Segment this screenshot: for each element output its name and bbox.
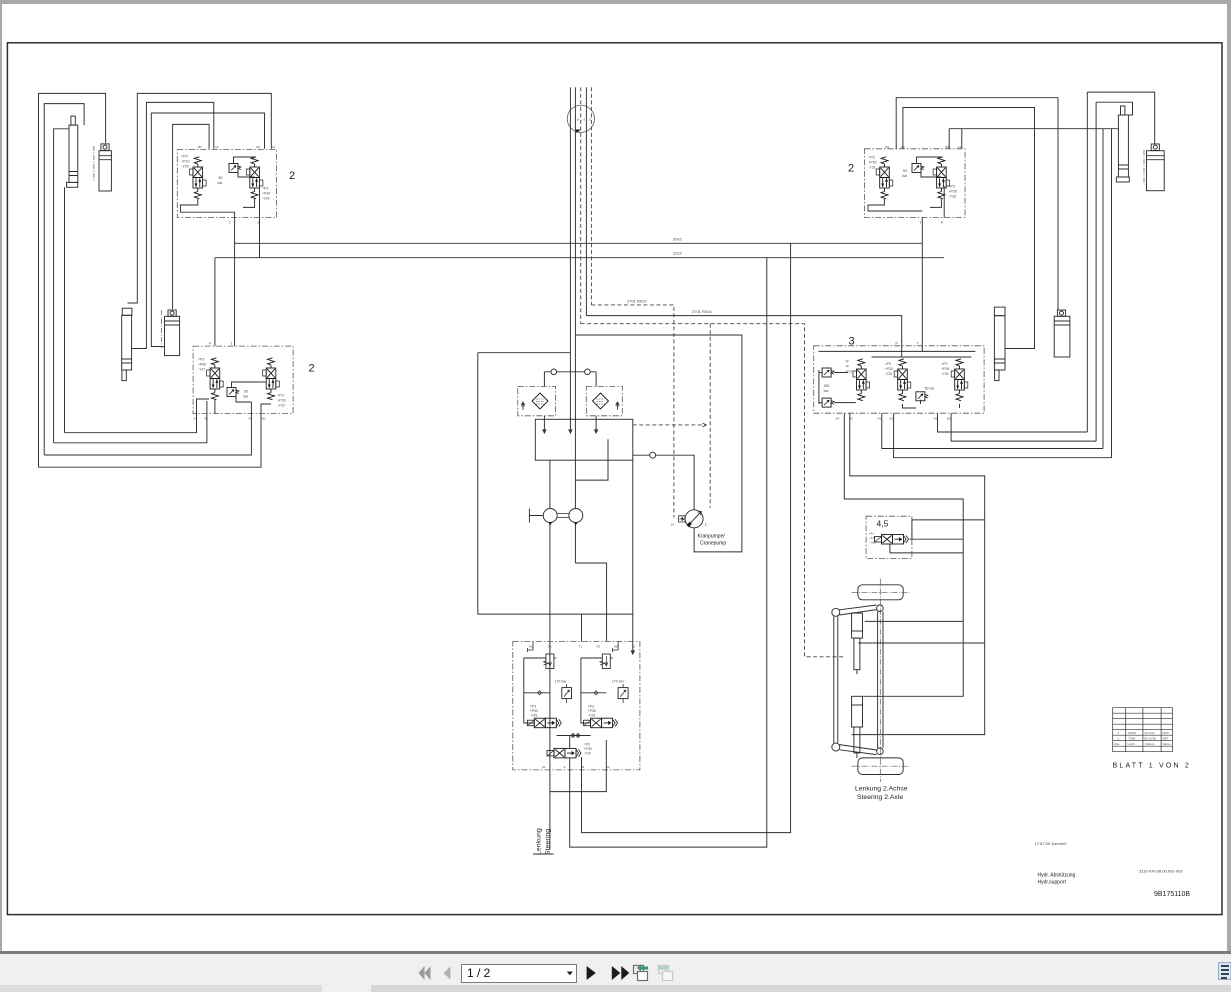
filter left [532, 393, 548, 409]
wire bottom run B2 [39, 414, 262, 468]
svg-text:8: 8 [577, 117, 579, 121]
wire blockTR-B1 A1 stubs [949, 129, 962, 149]
wire long to cylinder C7 rod [949, 128, 1118, 130]
valve Y31 [876, 157, 893, 199]
svg-text:P: P [258, 221, 261, 225]
relief valve right [618, 684, 628, 703]
svg-text:B2: B2 [947, 417, 951, 421]
steering valve block boundary [513, 642, 640, 770]
svg-text:Zus.: Zus. [1114, 742, 1120, 746]
next page button (right arrow) [587, 966, 596, 980]
svg-text:+P30: +P30 [949, 190, 957, 194]
kingpin lower [877, 748, 884, 755]
cylinder C2 (front left support) [94, 144, 112, 191]
page number combo box [461, 964, 577, 983]
bundle bottom runs to block3 ports [938, 413, 1088, 432]
svg-text:=P3: =P3 [198, 358, 204, 362]
tie rod [834, 617, 838, 743]
svg-text:170 bar: 170 bar [555, 680, 568, 684]
svg-text:25.10.98: 25.10.98 [1144, 737, 1156, 741]
svg-text:=P3: =P3 [277, 394, 283, 398]
svg-text:4,5: 4,5 [877, 519, 889, 529]
svg-text:B1: B1 [205, 417, 209, 421]
svg-text:+P30: +P30 [530, 709, 538, 713]
gauge handle [529, 509, 543, 523]
hose bundle marker circle [567, 105, 594, 132]
block1 internal wire to check [234, 157, 255, 177]
svg-text:bar: bar [218, 181, 224, 185]
valve Y30 [190, 157, 207, 199]
svg-text:+P10: +P10 [181, 160, 189, 164]
svg-text:+P30: +P30 [885, 367, 893, 371]
wire block1-T to block2-T [234, 218, 236, 347]
svg-text:T4402: T4402 [1128, 731, 1137, 735]
oil tank [535, 419, 633, 460]
svg-text:6: 6 [584, 117, 586, 121]
svg-text:Lenkung: Lenkung [536, 828, 543, 855]
svg-text:1: 1 [1118, 737, 1120, 741]
svg-text:=P3: =P3 [949, 185, 955, 189]
pressure reducer P1 [544, 654, 557, 669]
junction diamonds [538, 691, 599, 695]
svg-text:B: B [582, 765, 584, 769]
relief valve left [562, 684, 572, 703]
crane pump [685, 510, 703, 528]
svg-text:P: P [209, 342, 212, 346]
valve block 3 boundary [814, 346, 984, 413]
svg-text:A2: A2 [934, 417, 938, 421]
coupling W left [551, 369, 557, 375]
revision table [1113, 708, 1173, 752]
svg-text:B1: B1 [257, 145, 261, 149]
svg-text:-Y33: -Y33 [941, 372, 948, 376]
svg-text:B2: B2 [886, 145, 890, 149]
wire outer left loop to cylinder C2 [39, 93, 106, 467]
svg-text:A1: A1 [878, 417, 882, 421]
wire bottom run B1 [54, 414, 207, 443]
relief 50bar block3 [916, 392, 928, 401]
svg-text:2: 2 [289, 170, 295, 182]
block1 internal wire T [180, 199, 234, 218]
svg-text:-Y20: -Y20 [584, 752, 591, 756]
block45 wires [890, 520, 985, 553]
valve Y22 [853, 359, 870, 401]
axle beam [878, 612, 883, 748]
wedge mark [576, 130, 581, 134]
filter bypass right [616, 402, 620, 410]
pilot check 50bar blockTR [912, 164, 924, 173]
previous view icon [634, 964, 649, 981]
filter to tank stubs [543, 416, 598, 433]
steering lines down and right B [570, 258, 767, 847]
svg-text:-Y26: -Y26 [885, 372, 892, 376]
bus line upper 20x2 [235, 242, 923, 244]
svg-text:T300: T300 [1129, 737, 1136, 741]
wire bottom run A1 [65, 414, 197, 433]
bus line lower 22x2 [215, 257, 944, 259]
wire B3 to axle rod side [850, 413, 985, 734]
wire into tank top [478, 353, 572, 433]
valve block TR boundary [864, 149, 965, 218]
tank internal suction [607, 439, 609, 460]
svg-text:-Y29: -Y29 [262, 197, 269, 201]
wire right bundle 1 to cylinder C8 cap [1087, 92, 1154, 144]
svg-text:=P3: =P3 [584, 743, 590, 747]
svg-text:-Y27: -Y27 [198, 368, 205, 372]
filter box left [518, 386, 556, 415]
svg-text:9B175110B: 9B175110B [1154, 891, 1190, 898]
svg-text:=P3: =P3 [588, 705, 594, 709]
svg-text:Steering 2.Axle: Steering 2.Axle [857, 794, 903, 801]
svg-text:B2: B2 [198, 145, 202, 149]
svg-text:50: 50 [903, 169, 907, 173]
svg-text:2: 2 [848, 163, 854, 175]
supply line 2 [574, 87, 576, 563]
wire blockTR-B2 to cylinder C6 cap [896, 98, 1058, 310]
svg-text:-Y25: -Y25 [530, 714, 537, 718]
svg-text:=F+: =F+ [869, 532, 875, 536]
axle centerline [879, 579, 881, 782]
valve Y20 block45 [875, 535, 909, 545]
coupling W right [585, 369, 591, 375]
svg-text:=P3: =P3 [885, 362, 891, 366]
svg-text:A1: A1 [272, 145, 276, 149]
bottom-right panel icon [1219, 963, 1231, 980]
wheel lower centerline [852, 765, 910, 767]
svg-text:12.3.01: 12.3.01 [1145, 731, 1155, 735]
svg-text:A: A [564, 765, 566, 769]
svg-text:B1: B1 [890, 417, 894, 421]
suction route to P2 [575, 460, 608, 641]
hand pump gauge 1 [543, 509, 557, 523]
relief 180bar upper [822, 368, 834, 377]
svg-text:Lenkung 2.Achse: Lenkung 2.Achse [855, 786, 908, 793]
svg-text:+F: +F [845, 365, 849, 369]
steering arm lower [840, 745, 877, 755]
svg-text:Steering: Steering [545, 829, 552, 855]
cylinder C7 (right front outrigger) [1116, 106, 1129, 182]
pressure reducer P2 [600, 654, 613, 669]
valve Y33 [951, 359, 968, 401]
T2 line from tank unit [631, 614, 634, 654]
wire axle cylinder upper piston [865, 620, 963, 622]
svg-text:+P90: +P90 [198, 363, 206, 367]
block3 T feed from blockTR [921, 218, 923, 346]
svg-text:-Y22: -Y22 [845, 370, 852, 374]
wire from cylinder C1 foot down [64, 187, 66, 432]
svg-text:Cranepump: Cranepump [700, 541, 726, 547]
wire axle cylinder upper rod [858, 642, 985, 644]
supply line 1 to tank [569, 87, 571, 352]
return line to pump [633, 455, 694, 510]
svg-text:50: 50 [219, 176, 223, 180]
steering internal rail left [524, 658, 550, 723]
svg-text:-Y28: -Y28 [949, 195, 956, 199]
axle lock cylinder upper [852, 613, 863, 674]
svg-text:+P30: +P30 [584, 747, 592, 751]
filter right [593, 393, 609, 409]
T1 line from tank unit [581, 614, 583, 641]
svg-text:50: 50 [244, 390, 248, 394]
wire block1-B1 to cylinder C4 rod side [151, 113, 264, 347]
svg-text:+P30: +P30 [588, 709, 596, 713]
svg-text:P1: P1 [548, 644, 552, 648]
svg-text:17.07.00 1wrmm2: 17.07.00 1wrmm2 [1035, 841, 1068, 846]
cylinder C3 (mid left outrigger) [122, 308, 132, 380]
pilot dashed 2701 R016 [581, 324, 845, 657]
svg-text:2: 2 [589, 117, 591, 121]
svg-text:+P30: +P30 [868, 161, 876, 165]
wire rect R1 block1-A1 to cylinder C3 cap [128, 93, 272, 303]
svg-text:+P30: +P30 [277, 399, 285, 403]
svg-text:180: 180 [824, 384, 830, 388]
svg-text:L: L [705, 522, 708, 527]
svg-text:20x2: 20x2 [673, 236, 682, 241]
last page button (double right arrows) [612, 966, 621, 980]
svg-text:Datum: Datum [1146, 742, 1155, 746]
block2 internal wires [197, 382, 272, 414]
svg-text:=P3: =P3 [262, 187, 268, 191]
wire loop C to cylinder C1 rod side [54, 129, 69, 443]
svg-text:T: T [917, 342, 920, 346]
svg-text:Hydr. Abstützung: Hydr. Abstützung [1038, 873, 1076, 879]
hand pump gauge 2 [569, 509, 583, 523]
svg-text:T1: T1 [579, 644, 583, 648]
svg-text:-Y32: -Y32 [277, 404, 284, 408]
pilot line dashed A [580, 87, 582, 323]
svg-text:A2: A2 [249, 417, 253, 421]
svg-text:bar: bar [902, 174, 908, 178]
cylinder C4 (mid left support) [162, 310, 180, 356]
wire right bundle 2 to cylinder C7 cap [1096, 102, 1132, 115]
wire block1-A2 to cylinder C3 rod [132, 102, 214, 348]
cylinder C5 (right mid outrigger) [994, 307, 1005, 381]
first page button (double left arrows) [419, 966, 431, 980]
combo dropdown caret [567, 972, 573, 976]
wire block1-P to bus [259, 218, 261, 258]
axle wheel upper [858, 585, 903, 600]
svg-text:DET: DET [1163, 737, 1169, 741]
svg-text:=F: =F [845, 360, 849, 364]
right bundle verticals [1086, 92, 1088, 432]
axle lock cylinder lower [852, 696, 863, 758]
svg-text:T: T [229, 221, 232, 225]
pilot dashed from tank [633, 423, 707, 426]
svg-text:-Y24: -Y24 [588, 714, 595, 718]
svg-text:=P3: =P3 [530, 705, 536, 709]
svg-text:B2: B2 [262, 417, 266, 421]
svg-text:HNX: HNX [1163, 731, 1169, 735]
drain plug [650, 452, 656, 458]
wire P to steering block3 [586, 316, 901, 346]
svg-text:A1: A1 [542, 765, 546, 769]
steering internal rail right [581, 658, 606, 723]
180bar connections [819, 370, 856, 404]
block1 internal wire P [243, 186, 260, 218]
tank unit boundary [478, 353, 633, 614]
svg-text:-Y30: -Y30 [181, 165, 188, 169]
svg-text:=P3: =P3 [868, 156, 874, 160]
kingpin upper [877, 605, 884, 612]
filter box right [586, 386, 622, 415]
steering line P2 jog [550, 740, 606, 792]
steering solenoid valve Y20 [547, 748, 581, 758]
suction route to P1 [549, 460, 551, 849]
svg-text:+F4: +F4 [869, 536, 875, 540]
svg-text:=P3: =P3 [941, 362, 947, 366]
svg-text:3110-970.08.00.001-003: 3110-970.08.00.001-003 [1139, 869, 1183, 874]
pilot dashed 2701 R010 [591, 305, 674, 518]
coupling line [544, 372, 596, 387]
pilot dashed branch to pump [709, 324, 711, 508]
M1 stub [528, 642, 534, 653]
cylinder C8 (right front support) [1144, 144, 1164, 191]
svg-text:3: 3 [849, 336, 855, 348]
svg-text:Name: Name [1163, 742, 1171, 746]
prev page button (left arrow) [444, 967, 451, 980]
steering line A2 right [582, 243, 791, 832]
valve Y32 [263, 358, 280, 400]
svg-text:A2: A2 [215, 145, 219, 149]
svg-text:2701 R016: 2701 R016 [692, 309, 712, 314]
wheel upper centerlines [852, 591, 910, 593]
block3 internal rails [818, 346, 975, 357]
relief 180bar lower [822, 398, 834, 407]
svg-text:-Y31: -Y31 [868, 166, 875, 170]
svg-text:=P3: =P3 [181, 155, 187, 159]
pilot check valve 50bar block2 [227, 388, 239, 397]
steering arm upper [840, 605, 877, 615]
svg-text:1A: 1A [671, 523, 675, 527]
cylinder C1 (front left outrigger) [67, 116, 78, 187]
svg-text:BLATT 1 VON 2: BLATT 1 VON 2 [1113, 763, 1192, 770]
next view icon (disabled) [658, 964, 673, 981]
svg-text:50 bar: 50 bar [925, 386, 936, 390]
wire T to crane pump box [575, 335, 742, 552]
tie rod pivot upper [832, 608, 840, 616]
pilot check valve 50bar block1 [229, 164, 241, 173]
wire block1-B2 to cylinder C4 cap [173, 124, 210, 309]
valve block 2 boundary (dash-dot) [193, 346, 293, 413]
steering solenoid valve Y25 [527, 718, 561, 728]
steering solenoid valve Y24 [584, 718, 618, 728]
blockTR internal wires [868, 157, 944, 218]
svg-text:T: T [231, 342, 234, 346]
wire loop B to cylinder C1 cap [44, 104, 84, 455]
svg-text:Ind.N: Ind.N [1128, 742, 1135, 746]
tie rod pivot lower [832, 743, 840, 751]
svg-text:bar: bar [243, 395, 249, 399]
svg-text:Kranpumpe/: Kranpumpe/ [698, 534, 726, 540]
wire bus to block2-P [214, 258, 216, 346]
steering mid connections [557, 734, 591, 749]
valve Y27 [207, 358, 224, 400]
svg-text:7: 7 [570, 117, 572, 121]
svg-text:2: 2 [1118, 731, 1120, 735]
svg-text:P: P [941, 221, 944, 225]
wire A3 to lower axle cylinder [844, 413, 963, 696]
block3 internal jogs [903, 400, 960, 408]
svg-text:A1: A1 [194, 417, 198, 421]
filter bypass left [521, 402, 525, 410]
Lenkung continuation line [533, 853, 554, 855]
svg-text:bar: bar [824, 389, 830, 393]
M2 stub [613, 642, 619, 653]
pump drain connector [679, 516, 686, 522]
svg-text:T2: T2 [632, 644, 636, 648]
valve Y26 [894, 359, 911, 401]
pilot line dashed B [590, 87, 592, 305]
svg-text:+P30: +P30 [262, 192, 270, 196]
svg-text:Hydr.support: Hydr.support [1038, 880, 1067, 886]
svg-text:170 bar: 170 bar [612, 680, 625, 684]
svg-text:2701 R010: 2701 R010 [627, 298, 647, 303]
svg-text:2: 2 [309, 363, 315, 375]
wire bottom run A2 [44, 414, 251, 456]
axle wheel lower [858, 758, 903, 775]
valve Y29 [246, 157, 263, 199]
svg-text:22x2: 22x2 [673, 251, 682, 256]
cylinder C6 (right mid support) [1054, 310, 1070, 357]
valve block 1 boundary (dash-dot) [177, 150, 276, 218]
svg-text:P: P [896, 342, 899, 346]
svg-text:+P30: +P30 [941, 367, 949, 371]
svg-text:P2: P2 [597, 644, 601, 648]
svg-text:A3: A3 [836, 417, 840, 421]
valve Y28 [933, 157, 950, 199]
valve block 4,5 boundary [866, 516, 912, 558]
wire blockTR-A2 to cylinder C5 rod [903, 108, 1035, 349]
supply line 3 [585, 87, 587, 315]
